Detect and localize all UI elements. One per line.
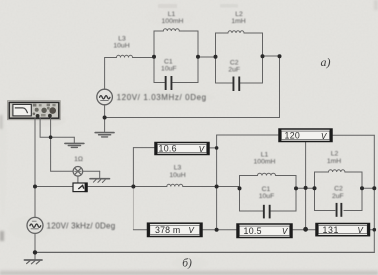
svg-text:10uH: 10uH: [113, 43, 129, 50]
svg-text:V: V: [189, 226, 195, 235]
svg-text:L3: L3: [118, 36, 126, 43]
svg-text:V: V: [282, 227, 288, 236]
svg-text:б): б): [182, 258, 192, 270]
svg-text:1Ω: 1Ω: [74, 156, 83, 163]
svg-text:10.5: 10.5: [244, 226, 262, 236]
svg-text:а): а): [321, 55, 331, 69]
svg-text:100mH: 100mH: [162, 18, 184, 25]
svg-text:1mH: 1mH: [231, 18, 245, 25]
svg-text:L2: L2: [331, 150, 339, 157]
svg-text:10uH: 10uH: [169, 172, 185, 179]
svg-text:120V/ 3kHz/ 0Deg: 120V/ 3kHz/ 0Deg: [47, 222, 116, 231]
svg-text:100mH: 100mH: [254, 159, 276, 166]
svg-text:C2: C2: [230, 60, 239, 67]
svg-text:L2: L2: [235, 11, 243, 18]
svg-text:V: V: [321, 132, 327, 141]
svg-text:10uF: 10uF: [161, 65, 177, 72]
svg-text:V: V: [358, 226, 364, 235]
svg-text:120: 120: [285, 131, 301, 141]
svg-text:378 m: 378 m: [155, 225, 180, 235]
svg-text:L3: L3: [174, 165, 182, 172]
svg-text:L1: L1: [261, 152, 269, 159]
svg-text:C1: C1: [164, 58, 173, 65]
svg-text:C2: C2: [334, 186, 343, 193]
svg-text:10uF: 10uF: [259, 193, 275, 200]
svg-text:131: 131: [323, 225, 339, 235]
svg-text:2uF: 2uF: [332, 193, 344, 200]
svg-text:V: V: [199, 145, 205, 154]
svg-text:2uF: 2uF: [228, 67, 240, 74]
svg-text:10.6: 10.6: [159, 144, 177, 154]
svg-text:120V/ 1.03MHz/ 0Deg: 120V/ 1.03MHz/ 0Deg: [117, 93, 207, 102]
svg-text:1mH: 1mH: [327, 158, 341, 165]
svg-text:L1: L1: [168, 11, 176, 18]
